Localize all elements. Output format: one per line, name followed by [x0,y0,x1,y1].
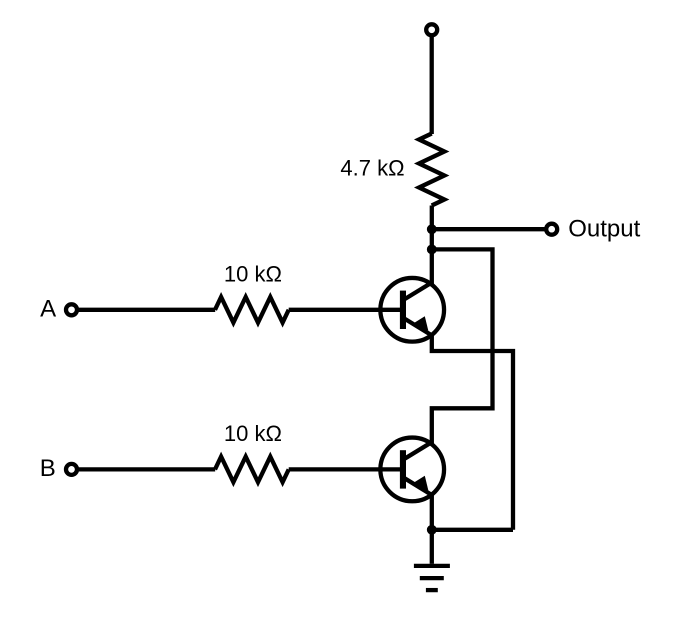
svg-text:10 kΩ: 10 kΩ [224,421,282,446]
svg-text:Output: Output [568,215,640,242]
resistor R2 10k (input A, horizontal zigzag) [215,297,289,323]
wire ground stem [430,530,434,564]
wire R2 to Q1 base [289,308,401,312]
transistor Q2 [380,438,444,502]
wire node B2 right then down to Q2 collector loop [432,249,493,444]
wire Vcc terminal to resistor R1 [430,36,434,134]
ground symbol [414,566,450,590]
junction node output (dot) [429,226,435,232]
resistor R1 4.7k (vertical zigzag) [419,134,444,206]
junction node ground (dot) [429,527,435,533]
resistor R3 10k (input B, horizontal zigzag) [215,457,289,483]
wire Q2 emitter to ground junction [430,493,434,530]
wire Q1 emitter down, right, down to ground junction [432,333,513,530]
svg-text:4.7 kΩ: 4.7 kΩ [340,156,404,181]
terminal Output (open circle) [546,224,557,235]
svg-text:B: B [40,455,56,482]
transistor Q1 [380,278,444,342]
wire ground junction right to emitter bus [432,528,513,532]
svg-text:A: A [40,295,56,322]
wire R1 bottom through output node down to Q1 collector [430,206,434,285]
svg-text:10 kΩ: 10 kΩ [224,261,282,286]
wire R3 to Q2 base [289,467,401,471]
terminal A (open circle) [66,304,77,315]
terminal Vcc (open circle) [426,24,437,35]
wire input A terminal to resistor R2 [78,308,215,312]
wire input B terminal to resistor R3 [78,467,215,471]
terminal B (open circle) [66,464,77,475]
wire output node to Output terminal [432,227,546,231]
junction node collector tie (dot) [429,247,435,253]
